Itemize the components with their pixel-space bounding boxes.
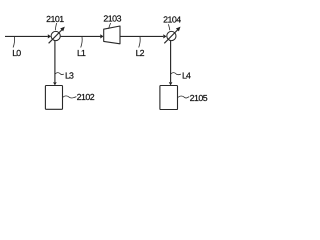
svg-text:L4: L4 — [182, 71, 191, 81]
valve 2104 (circle with diagonal arrow) — [167, 31, 176, 40]
arrowhead into valve 2104 — [163, 34, 166, 38]
leader for label L3 — [55, 73, 64, 75]
wire L1 — [61, 35, 101, 37]
arrowhead into tank 2105 — [169, 82, 173, 85]
leader for label L1 — [81, 37, 82, 48]
leader for label 2103 — [109, 23, 111, 29]
arrowhead into compressor 2103 — [100, 34, 103, 38]
compressor 2103 (trapezoid) — [104, 26, 120, 44]
leader for label L2 — [139, 37, 140, 48]
wire L2 — [120, 35, 163, 37]
valve 2101 (circle with diagonal arrow) — [51, 31, 60, 40]
wire L3 (vertical from valve 2101 to tank 2102) — [54, 41, 56, 82]
svg-text:2103: 2103 — [103, 14, 121, 24]
svg-text:2105: 2105 — [190, 93, 208, 103]
svg-text:2102: 2102 — [77, 92, 95, 102]
leader for label 2105 — [178, 96, 189, 98]
leader for label 2102 — [63, 96, 76, 98]
leader for label 2101 — [55, 23, 56, 30]
wire L4 (vertical from valve 2104 to tank 2105) — [170, 41, 172, 82]
leader for label L0 — [13, 37, 14, 48]
svg-text:L3: L3 — [65, 71, 74, 81]
tank 2102 — [45, 86, 62, 110]
wire L0 — [5, 35, 48, 37]
arrowhead into valve 2101 — [48, 34, 51, 38]
svg-text:L1: L1 — [77, 48, 86, 58]
arrowhead into tank 2102 — [53, 82, 57, 85]
svg-text:L0: L0 — [12, 48, 21, 58]
tank 2105 — [160, 86, 178, 110]
diagonal arrow of valve 2101 — [49, 29, 63, 43]
leader for label 2104 — [168, 24, 169, 30]
leader for label L4 — [171, 73, 181, 75]
svg-text:2101: 2101 — [46, 14, 64, 24]
diagonal arrow of valve 2104 — [164, 29, 178, 43]
svg-text:2104: 2104 — [163, 15, 181, 25]
svg-text:L2: L2 — [136, 48, 145, 58]
